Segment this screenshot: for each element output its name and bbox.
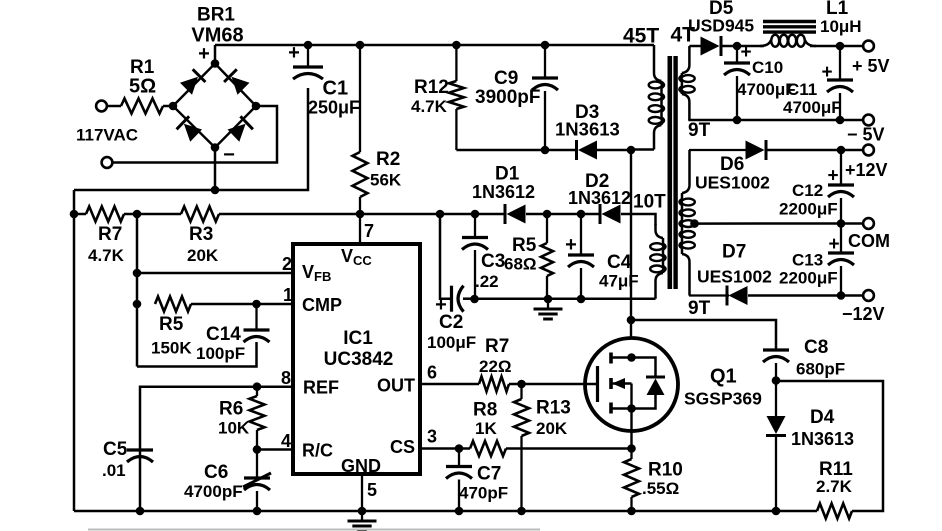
transformer core (670, 56, 676, 289)
svg-text:C1: C1 (323, 78, 349, 100)
diode D3 (555, 102, 620, 160)
svg-text:1N3613: 1N3613 (791, 429, 854, 449)
svg-text:C9: C9 (494, 68, 518, 89)
svg-text:+: + (288, 42, 300, 64)
svg-text:R6: R6 (219, 399, 243, 420)
svg-text:.22: .22 (475, 272, 499, 291)
label BR1 (197, 5, 235, 26)
svg-text:C4: C4 (607, 252, 632, 273)
Q1 body arrow (611, 378, 632, 409)
svg-text:6: 6 (427, 363, 437, 383)
label VM68 (191, 25, 243, 47)
pin 3 CS label (390, 427, 437, 458)
svg-text:R2: R2 (376, 149, 400, 170)
svg-text:20K: 20K (536, 419, 568, 438)
node R12 top (452, 41, 461, 50)
node R6 C6 junction (253, 445, 262, 454)
node winding tap (690, 219, 699, 228)
capacitor C9 (475, 45, 558, 150)
node bridge right (252, 102, 261, 111)
resistor R6 (218, 387, 265, 450)
diode D2 (568, 171, 631, 224)
wire D2 to 10T winding (621, 214, 656, 225)
node C2 branch (436, 210, 445, 219)
svg-text:.01: .01 (102, 461, 126, 480)
node R5 tap (133, 300, 142, 309)
node left bus R7 (70, 210, 79, 219)
wire L1 to +5V (810, 45, 863, 48)
wire C2 to C3 bottom (463, 297, 475, 300)
svg-text:+12V: +12V (845, 160, 888, 180)
Q1 gate bar (596, 366, 599, 402)
label 117VAC (76, 126, 138, 145)
svg-text:C6: C6 (204, 462, 228, 483)
svg-text:117VAC: 117VAC (76, 126, 138, 145)
node C14 top (252, 300, 261, 309)
svg-text:OUT: OUT (377, 376, 415, 396)
wire REF to pin8 (140, 387, 293, 511)
op-amp U1 IC1 UC3842 box (293, 244, 420, 474)
resistor R7 4.7K (86, 207, 125, 266)
svg-text:R5: R5 (159, 314, 184, 335)
node drain C8 branch (627, 316, 636, 325)
svg-text:C3: C3 (481, 251, 505, 272)
node bridge top (211, 59, 220, 68)
svg-text:REF: REF (303, 378, 339, 398)
wire VFB bus (136, 214, 139, 367)
svg-text:4700μF: 4700μF (783, 98, 842, 117)
node C3 bottom (470, 295, 479, 304)
svg-text:USD945: USD945 (688, 16, 754, 36)
node terminal -12V (842, 290, 885, 324)
wire R7 to R3 (124, 213, 181, 216)
node R13 bottom rail (517, 507, 526, 516)
svg-text:+: + (828, 234, 839, 255)
svg-text:R5: R5 (512, 235, 537, 256)
resistor R1 (121, 57, 163, 114)
svg-text:10μH: 10μH (820, 17, 862, 36)
resistor R13 (514, 384, 571, 511)
wire D6 to +12V (765, 149, 863, 152)
node gate (517, 380, 526, 389)
svg-text:2: 2 (282, 254, 292, 274)
wire CS (420, 447, 470, 450)
inductor L1 (760, 0, 862, 47)
node AC input terminal lower (102, 157, 113, 168)
capacitor C2 (427, 214, 476, 352)
bridge rectifier BR1 frame (173, 64, 256, 148)
Q1 body diode (632, 358, 666, 409)
svg-text:COM: COM (848, 231, 890, 251)
wire drain to C8 (631, 320, 776, 349)
node C1 top (304, 41, 313, 50)
wire bottom rail (74, 510, 817, 513)
capacitor C1 (288, 42, 360, 118)
node minus rail junction (211, 186, 220, 195)
node R7 R3 junction (133, 210, 142, 219)
svg-text:GND: GND (341, 456, 381, 476)
svg-text:1N3612: 1N3612 (472, 182, 535, 202)
resistor R2 (353, 45, 402, 214)
svg-text:R10: R10 (648, 460, 683, 481)
wire D7 to -12V (748, 294, 863, 297)
resistor R5 150K (151, 297, 192, 358)
wire R1 to bridge (163, 105, 174, 108)
capacitor C3 (462, 214, 505, 299)
diode D4 (766, 381, 854, 512)
node C13 bottom (837, 291, 846, 300)
svg-text:R12: R12 (414, 77, 449, 98)
node bridge left (169, 102, 178, 111)
svg-text:5: 5 (367, 480, 377, 500)
node bridge bottom (211, 143, 220, 152)
Q1 channel segments (609, 353, 613, 414)
wire aux ground (475, 297, 656, 300)
node R10 bottom rail (627, 507, 636, 516)
label bridge plus (198, 43, 210, 65)
capacitor C8 (763, 337, 845, 381)
node C7 bottom rail (455, 507, 464, 516)
svg-text:100μF: 100μF (427, 333, 476, 352)
wire bridge bottom to minus rail (214, 148, 217, 191)
bridge diode bottom-left (177, 116, 202, 142)
capacitor C13 (779, 224, 854, 296)
node ground symbol junction (544, 295, 553, 304)
svg-text:+ 5V: + 5V (852, 56, 890, 76)
node terminal -5V (847, 115, 885, 145)
ground IC (348, 511, 377, 531)
resistor R3 (181, 207, 219, 266)
svg-text:C11: C11 (787, 80, 817, 99)
svg-text:C5: C5 (103, 439, 128, 460)
svg-text:2200μF: 2200μF (779, 200, 838, 219)
wire minus rail (74, 88, 308, 190)
resistor R10 (624, 449, 683, 512)
node terminal COM (848, 218, 890, 251)
diode D6 (689, 140, 770, 193)
capacitor C14 (137, 304, 270, 367)
svg-text:4700pF: 4700pF (184, 482, 243, 501)
label bridge minus (223, 144, 235, 166)
node C10 top (733, 42, 742, 51)
svg-text:R8: R8 (473, 400, 497, 421)
node C5 bottom rail (136, 507, 145, 516)
svg-text:8: 8 (281, 368, 291, 388)
wire R8 to source node (506, 447, 632, 450)
node C4 top (577, 210, 586, 219)
svg-text:1K: 1K (475, 419, 497, 438)
winding 4T (679, 46, 701, 120)
pin 4 R/C label (281, 431, 333, 461)
svg-text:−12V: −12V (842, 304, 885, 324)
svg-text:− 5V: − 5V (847, 125, 885, 145)
capacitor C12 (779, 150, 854, 224)
resistor R11 (816, 459, 853, 519)
svg-text:R7: R7 (485, 336, 509, 357)
label 9T lower (688, 298, 711, 319)
svg-text:D4: D4 (810, 407, 835, 428)
svg-text:UES1002: UES1002 (695, 173, 770, 193)
svg-text:C2: C2 (439, 312, 463, 333)
svg-text:470pF: 470pF (459, 484, 508, 503)
svg-text:D7: D7 (722, 242, 746, 263)
label Q1 (684, 366, 762, 409)
Q1 drain tie (611, 353, 636, 362)
svg-text:C13: C13 (792, 251, 823, 270)
node VCC riser (356, 210, 365, 219)
node IC GND rail (358, 507, 367, 516)
label 9T upper (688, 120, 711, 141)
node R5 68 top (543, 210, 552, 219)
transistor Q1 circle (585, 338, 678, 431)
wire bridge top to rail (214, 45, 217, 64)
wire R3 to VCC node (219, 213, 506, 216)
svg-text:Q1: Q1 (710, 366, 737, 388)
bridge diode bottom-right (228, 116, 253, 142)
wire D1 to R5 node (526, 213, 601, 216)
wire snubber bottom (456, 149, 577, 152)
resistor R12 (411, 45, 464, 150)
node terminal +12V (845, 145, 888, 180)
svg-text:.55Ω: .55Ω (642, 479, 679, 498)
node C6 bottom rail (253, 507, 262, 516)
svg-text:+: + (565, 234, 577, 256)
resistor R5 68 (504, 214, 553, 299)
wire pin4 (257, 448, 293, 451)
resistor R8 (470, 400, 506, 457)
ground aux (534, 299, 563, 319)
label 10T (633, 192, 666, 213)
wire VCC aux rail (74, 213, 86, 216)
label 4T (671, 24, 696, 47)
bridge diode top-left (180, 69, 205, 95)
wire AC upper to R1 (107, 105, 121, 108)
node C9 top (541, 41, 550, 50)
wire left ground bus (73, 190, 76, 511)
diode D1 (472, 164, 535, 225)
svg-text:22Ω: 22Ω (479, 357, 512, 376)
svg-text:SGSP369: SGSP369 (684, 389, 762, 409)
pin 6 OUT label (377, 363, 437, 396)
node C8 D4 junction (772, 376, 781, 385)
svg-text:2200μF: 2200μF (779, 269, 838, 288)
node C4 bottom (577, 295, 586, 304)
wire D5 to L1 (721, 45, 764, 48)
wire scan edge artifact (88, 529, 540, 531)
svg-text:+: + (827, 166, 838, 187)
node C9 bottom (541, 146, 550, 155)
node C10 bottom (733, 116, 742, 125)
svg-text:BR1: BR1 (197, 5, 235, 26)
svg-text:3900pF: 3900pF (475, 87, 540, 108)
svg-text:7: 7 (364, 221, 374, 241)
svg-text:+: + (198, 43, 210, 65)
diode D7 (689, 242, 772, 306)
svg-text:1: 1 (283, 285, 293, 305)
capacitor C7 (446, 449, 508, 512)
svg-text:56K: 56K (370, 171, 402, 190)
wire tap to COM (695, 222, 864, 225)
svg-text:+: + (821, 62, 832, 83)
svg-text:1N3612: 1N3612 (568, 188, 631, 208)
winding 10T (650, 224, 665, 299)
wire primary bottom / drain line (630, 150, 632, 339)
node C12 bottom (837, 219, 846, 228)
svg-text:250μF: 250μF (308, 98, 360, 118)
pin 1 CMP label (283, 285, 342, 315)
svg-text:C7: C7 (477, 464, 501, 485)
pin 8 REF label (281, 368, 339, 398)
diode D5 (688, 0, 754, 56)
svg-text:4: 4 (281, 431, 291, 451)
node C3 branch (471, 210, 480, 219)
svg-text:CS: CS (390, 437, 415, 457)
svg-text:IC1: IC1 (343, 328, 373, 349)
wire 5V bottom (688, 119, 863, 122)
wire D3 to primary (597, 149, 631, 152)
svg-text:2.7K: 2.7K (816, 477, 853, 496)
svg-text:UC3842: UC3842 (324, 349, 394, 370)
node C12 top (837, 146, 846, 155)
svg-text:C8: C8 (804, 337, 828, 358)
node C7 top (455, 444, 464, 453)
node VFB tap (133, 269, 142, 278)
pin 2 VFB label (282, 254, 331, 284)
svg-text:C10: C10 (752, 58, 783, 77)
node source CS junction (627, 444, 636, 453)
svg-text:10T: 10T (633, 192, 666, 213)
svg-text:20K: 20K (187, 246, 219, 265)
node AC input terminal upper (96, 101, 107, 112)
svg-text:9T: 9T (688, 120, 711, 141)
Q1 source tie (611, 404, 636, 448)
svg-text:68Ω: 68Ω (504, 255, 537, 274)
svg-text:R13: R13 (536, 398, 571, 419)
svg-text:C12: C12 (792, 181, 823, 200)
svg-text:5Ω: 5Ω (129, 76, 156, 98)
svg-text:9T: 9T (688, 298, 711, 319)
node terminal +5V (852, 41, 890, 76)
svg-text:CMP: CMP (302, 295, 342, 315)
svg-text:47μF: 47μF (599, 272, 639, 291)
svg-text:C14: C14 (206, 324, 241, 345)
svg-text:UES1002: UES1002 (697, 267, 772, 287)
wire OUT (420, 383, 479, 386)
wire R7 to gate (509, 383, 596, 386)
svg-text:680pF: 680pF (796, 360, 845, 379)
node D3 primary junction (627, 146, 636, 155)
svg-text:R3: R3 (189, 224, 213, 245)
svg-text:R/C: R/C (302, 441, 333, 461)
node C11 bottom (836, 116, 845, 125)
svg-text:1N3613: 1N3613 (555, 119, 620, 140)
svg-text:100pF: 100pF (196, 344, 245, 363)
svg-text:4.7K: 4.7K (411, 97, 448, 116)
svg-text:+: + (740, 42, 751, 63)
svg-text:R7: R7 (98, 224, 122, 245)
wire top DC rail (215, 44, 648, 47)
winding 9T mid (680, 150, 695, 296)
svg-text:3: 3 (427, 427, 437, 447)
node REF R6 junction (253, 382, 262, 391)
svg-text:150K: 150K (151, 339, 192, 358)
capacitor C4 (565, 214, 639, 299)
label 45T (623, 25, 659, 48)
svg-text:4.7K: 4.7K (88, 246, 125, 265)
capacitor C6 (184, 450, 271, 512)
primary winding 45T (631, 45, 664, 150)
node C11 top (836, 42, 845, 51)
pin 5 GND (341, 456, 381, 511)
bridge diode top-right (224, 69, 249, 95)
wire bridge right loop (113, 106, 278, 163)
wire C8 node to R11 riser (776, 381, 883, 511)
wire R5 to pin1 (191, 303, 293, 306)
pin 7 VCC (341, 214, 374, 268)
svg-text:10K: 10K (218, 419, 250, 438)
node R2 top (356, 41, 365, 50)
wire VFB to pin2 (137, 272, 293, 275)
capacitor C11 (783, 46, 853, 120)
capacitor C5 (102, 439, 153, 480)
resistor R7 22 (479, 336, 512, 392)
capacitor C10 (724, 42, 817, 120)
node D4 bottom rail (772, 507, 781, 516)
